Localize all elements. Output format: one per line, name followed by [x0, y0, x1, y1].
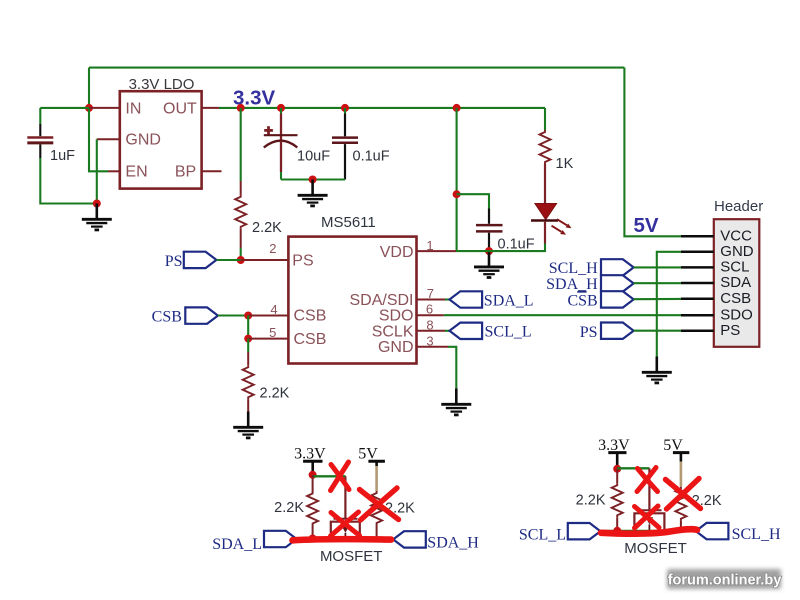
wire IN junction to 1uF	[40, 107, 89, 109]
wire 5V tan segment bottom-left	[375, 466, 378, 491]
svg-text:SDO: SDO	[720, 306, 753, 323]
annotation red strike over SCL bus	[601, 529, 697, 533]
svg-text:SDA_H: SDA_H	[427, 534, 479, 551]
wire SCL_H to header	[634, 266, 681, 268]
wire gate link bottom-right	[617, 467, 649, 469]
wire LDO GND down to ground	[96, 139, 98, 203]
svg-text:SDA_L: SDA_L	[484, 292, 534, 309]
svg-text:CSB: CSB	[567, 292, 597, 309]
wire caps bottom bus	[281, 178, 345, 180]
flag PS right	[601, 323, 634, 339]
capacitor C1 1uF	[27, 108, 53, 158]
supply symbol 5V bottom-left	[358, 446, 385, 466]
flag SDA_L bottom	[264, 531, 297, 547]
pin stub LDO IN	[89, 107, 120, 109]
flag SDA_H	[601, 275, 634, 291]
flag SCL_H bottom	[696, 523, 729, 539]
node rail/2.2K junction	[237, 104, 245, 112]
pin stub MS5611 CSB pin 5	[248, 338, 288, 340]
wire SDO to header	[444, 314, 681, 316]
pin stub MS5611 SCLK pin 8	[417, 330, 446, 332]
pin stub header GND	[681, 251, 714, 254]
svg-text:SCL_H: SCL_H	[549, 260, 598, 277]
resistor R4 2.2K (SDA 3.3V side)	[307, 475, 318, 539]
svg-text:GND: GND	[720, 243, 754, 260]
svg-text:2.2K: 2.2K	[260, 386, 290, 402]
node LDO IN junction	[85, 104, 93, 112]
capacitor C2 10uF polarized	[264, 108, 298, 180]
pin stub LDO EN	[108, 170, 120, 172]
node caps ground junction	[309, 176, 317, 184]
ground under MS5611 GND	[441, 389, 471, 415]
svg-text:forum.onliner.by: forum.onliner.by	[668, 572, 782, 588]
node bypass cap tap junction	[453, 190, 461, 198]
pin stub LDO OUT	[202, 107, 219, 109]
annotation red X over SCL gate link	[637, 468, 658, 492]
wire 3.3V drop to VDD	[456, 108, 458, 251]
flag CSB right	[601, 291, 634, 307]
node CSB pin5 junction	[244, 335, 252, 343]
ground under CSB resistor	[233, 412, 263, 438]
LED D1	[531, 204, 572, 244]
wire 5V top rail	[89, 67, 624, 69]
transistor Q2 MOSFET (SCL)	[634, 468, 664, 531]
node bottom-right 3.3V junction	[613, 465, 621, 473]
wire 5V tan segment bottom-right	[680, 462, 683, 487]
svg-text:4: 4	[270, 302, 277, 317]
wire CSB pin4 to pin5	[247, 316, 249, 339]
pin stub header SDA	[681, 282, 714, 285]
annotation big red X over SCL 5V resistor	[666, 479, 701, 510]
flag SCL_L	[450, 323, 483, 339]
svg-text:0.1uF: 0.1uF	[353, 148, 390, 164]
supply symbol 3.3V bottom-right	[598, 437, 630, 469]
pin stub LDO BP	[202, 170, 222, 172]
ground under LDO	[82, 204, 112, 230]
transistor Q1 MOSFET (SDA)	[331, 476, 360, 538]
svg-text:MS5611: MS5611	[321, 214, 376, 231]
svg-text:SCL_H: SCL_H	[732, 526, 781, 543]
supply symbol 5V bottom-right	[663, 437, 689, 462]
flag PS left	[184, 252, 217, 268]
pin stub header PS	[681, 329, 714, 332]
svg-text:2.2K: 2.2K	[274, 500, 304, 516]
wire PS to header	[634, 330, 681, 332]
node VDD/cap/ground junction	[485, 247, 493, 255]
flag SDA_H bottom	[393, 531, 426, 547]
wire gate link bottom-left	[313, 475, 346, 477]
pin stub header VCC	[681, 235, 714, 238]
svg-text:BP: BP	[175, 164, 196, 181]
flag SCL_L bottom	[568, 523, 601, 539]
resistor R6 2.2K (SCL 3.3V side)	[612, 469, 623, 531]
wire pin8 to SCL_L flag	[445, 330, 450, 332]
resistor R2 2.2K pull-down CSB	[243, 339, 254, 412]
svg-text:SCLK: SCLK	[372, 323, 414, 340]
pin stub MS5611 SDO pin 6	[417, 314, 444, 316]
annotation red strike over SDA bus	[293, 539, 392, 540]
resistor R5 2.2K (SDA 5V side)	[371, 491, 382, 539]
wire SCL level-shift bus	[600, 530, 698, 532]
ground under header GND	[642, 357, 672, 383]
svg-text:7: 7	[427, 286, 434, 301]
supply symbol 3.3V bottom-left	[294, 446, 326, 475]
node bottom-left 3.3V junction	[309, 471, 317, 479]
svg-text:SCL: SCL	[720, 259, 749, 276]
op-amp U1 3.3V LDO box	[120, 91, 202, 188]
pin stub MS5611 PS pin 2	[241, 259, 289, 261]
svg-text:2: 2	[269, 241, 276, 256]
node ground junction under LDO	[93, 200, 101, 208]
svg-text:SCL_L: SCL_L	[519, 527, 566, 544]
svg-text:6: 6	[426, 301, 433, 316]
pin stub header SDO	[681, 314, 714, 317]
svg-text:Header: Header	[714, 198, 763, 215]
node PS junction	[237, 256, 245, 264]
pin stub MS5611 VDD pin 1	[417, 250, 457, 252]
svg-text:2.2K: 2.2K	[576, 493, 606, 509]
connector J1 Header box	[714, 219, 760, 347]
svg-text:OUT: OUT	[163, 100, 197, 117]
svg-text:1: 1	[426, 238, 433, 253]
wire PS flag to junction	[217, 259, 241, 261]
resistor R7 2.2K (SCL 5V side)	[675, 487, 686, 531]
watermark forum.onliner.by	[667, 569, 781, 589]
svg-text:IN: IN	[125, 100, 141, 117]
wire 1uF bottom to ground junction	[40, 158, 97, 204]
svg-text:MOSFET: MOSFET	[320, 548, 383, 565]
node CSB pin4 junction	[244, 312, 252, 320]
svg-text:SDA/SDI: SDA/SDI	[349, 292, 413, 309]
annotation red X over SCL mosfet	[635, 506, 660, 528]
svg-text:CSB: CSB	[152, 309, 182, 326]
wire SDA_H to header	[634, 282, 681, 284]
flag SDA_L	[450, 291, 483, 307]
svg-text:8: 8	[426, 317, 433, 332]
annotation red X over SDA mosfet	[331, 512, 360, 536]
svg-text:GND: GND	[125, 132, 161, 149]
capacitor C4 0.1uF bypass	[457, 194, 503, 251]
wire 5V right drop to header VCC	[624, 68, 681, 237]
wire 3.3V rail	[219, 107, 545, 109]
capacitor C3 0.1uF	[332, 108, 358, 180]
wire header GND to ground	[657, 252, 681, 357]
node rail/10uF junction	[277, 104, 285, 112]
svg-text:PS: PS	[580, 324, 598, 341]
pin stub header SCL	[681, 266, 714, 269]
svg-text:CSB: CSB	[294, 308, 327, 325]
ground under caps	[298, 180, 328, 206]
svg-text:SDA: SDA	[720, 274, 751, 291]
svg-text:10uF: 10uF	[297, 148, 330, 164]
svg-text:VCC: VCC	[720, 227, 752, 244]
wire 5V left drop to LDO IN	[88, 68, 90, 108]
svg-text:VDD: VDD	[380, 244, 414, 261]
wire IN junction down to EN	[89, 108, 108, 171]
ground under bypass cap	[474, 251, 504, 277]
svg-text:PS: PS	[165, 253, 183, 270]
svg-text:PS: PS	[292, 252, 313, 269]
svg-text:5: 5	[269, 325, 276, 340]
svg-text:SDO: SDO	[379, 308, 414, 325]
pin stub header CSB	[681, 297, 714, 300]
svg-text:EN: EN	[125, 164, 147, 181]
svg-text:1K: 1K	[556, 156, 574, 172]
node rail/VDD-drop junction	[453, 104, 461, 112]
wire pin3 to ground	[448, 347, 456, 389]
flag SCL_H	[601, 259, 634, 275]
svg-text:GND: GND	[378, 339, 414, 356]
pin stub MS5611 GND pin 3	[417, 346, 449, 348]
svg-text:SDA_H: SDA_H	[546, 276, 598, 293]
svg-text:SCL_L: SCL_L	[485, 324, 532, 341]
wire CSB to header	[634, 298, 681, 300]
IC U2 MS5611 box	[288, 237, 416, 364]
node SCL resistor junction	[613, 527, 621, 535]
wire SDA level-shift bus	[294, 537, 395, 539]
pin stub LDO GND	[97, 138, 120, 140]
annotation big red X over SDA 5V resistor	[360, 488, 399, 520]
wire LED to VDD line	[456, 244, 545, 252]
svg-text:2.2K: 2.2K	[252, 220, 282, 236]
svg-text:CSB: CSB	[294, 331, 327, 348]
svg-text:PS: PS	[720, 322, 740, 339]
overline on S of CSB	[577, 291, 586, 293]
node SDA resistor junction	[309, 535, 317, 543]
svg-text:SDA_L: SDA_L	[212, 536, 262, 553]
resistor R3 1K LED	[540, 108, 551, 204]
node rail/0.1uF junction	[341, 104, 349, 112]
svg-text:5V: 5V	[634, 214, 659, 237]
resistor R1 2.2K pull-up PS	[235, 108, 246, 260]
svg-text:MOSFET: MOSFET	[624, 540, 687, 557]
pin stub MS5611 CSB pin 4	[248, 315, 288, 317]
annotation red X over SDA gate link	[331, 462, 350, 491]
wire CSB flag to junction	[218, 314, 248, 316]
svg-text:CSB: CSB	[720, 290, 751, 307]
svg-text:3.3V LDO: 3.3V LDO	[129, 76, 195, 93]
wire pin7 to SDA_L flag	[445, 298, 450, 300]
pin stub MS5611 SDA/SDI pin 7	[417, 299, 446, 301]
flag CSB left	[185, 307, 218, 323]
svg-text:3: 3	[426, 333, 433, 348]
svg-text:1uF: 1uF	[50, 148, 75, 164]
